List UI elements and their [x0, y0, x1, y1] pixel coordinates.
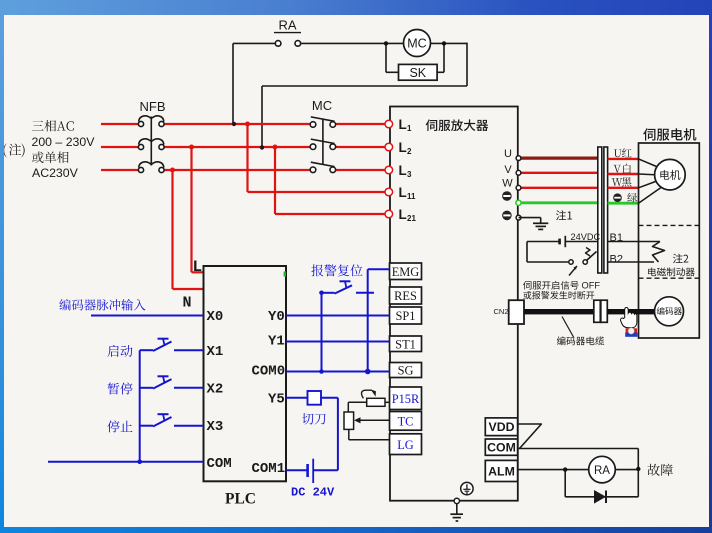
svg-text:RA: RA: [594, 465, 610, 477]
svg-text:SK: SK: [409, 66, 426, 80]
svg-text:V: V: [504, 164, 512, 176]
svg-text:Y5: Y5: [268, 392, 285, 408]
svg-text:OFF: OFF: [582, 281, 601, 291]
svg-text:PLC: PLC: [225, 491, 256, 508]
svg-text:MC: MC: [312, 98, 332, 113]
svg-text:B2: B2: [610, 254, 623, 266]
svg-text:ST1: ST1: [395, 337, 416, 351]
svg-text:X0: X0: [207, 309, 224, 325]
svg-text:L: L: [399, 207, 407, 222]
svg-text:Y0: Y0: [268, 309, 285, 325]
svg-text:X1: X1: [207, 344, 224, 360]
svg-text:X2: X2: [207, 382, 224, 398]
svg-text:24VDC: 24VDC: [571, 232, 601, 242]
svg-text:NFB: NFB: [140, 99, 166, 114]
svg-text:Y1: Y1: [268, 334, 285, 350]
svg-text:RA: RA: [278, 18, 296, 33]
svg-text:21: 21: [407, 214, 416, 223]
svg-text:CN2: CN2: [494, 307, 509, 316]
svg-text:P15R: P15R: [392, 392, 420, 406]
svg-text:DC 24V: DC 24V: [291, 486, 335, 500]
svg-text:RES: RES: [394, 289, 417, 303]
svg-text:SG: SG: [398, 364, 414, 378]
svg-text:EMG: EMG: [392, 265, 420, 279]
svg-text:L: L: [399, 163, 407, 178]
svg-text:L: L: [399, 185, 407, 200]
svg-text:COM: COM: [487, 441, 516, 455]
svg-text:U: U: [504, 148, 512, 160]
svg-text:AC230V: AC230V: [32, 166, 79, 180]
svg-text:MC: MC: [407, 37, 426, 51]
svg-text:COM1: COM1: [252, 461, 286, 477]
svg-text:ALM: ALM: [488, 464, 515, 478]
svg-text:2: 2: [407, 147, 412, 156]
svg-text:1: 1: [407, 124, 412, 133]
svg-text:200 – 230V: 200 – 230V: [32, 135, 96, 149]
svg-text:L: L: [193, 258, 203, 276]
svg-text:11: 11: [407, 192, 416, 201]
svg-text:LG: LG: [397, 438, 414, 452]
svg-text:COM: COM: [207, 456, 232, 472]
svg-text:L: L: [399, 140, 407, 155]
svg-text:VDD: VDD: [489, 420, 515, 434]
svg-text:X3: X3: [207, 419, 224, 435]
svg-text:L: L: [399, 117, 407, 132]
svg-text:N: N: [183, 295, 192, 312]
svg-text:COM0: COM0: [252, 364, 286, 380]
svg-text:SP1: SP1: [396, 309, 416, 323]
svg-text:3: 3: [407, 170, 412, 179]
svg-text:TC: TC: [398, 414, 414, 428]
svg-text:W: W: [502, 178, 513, 190]
